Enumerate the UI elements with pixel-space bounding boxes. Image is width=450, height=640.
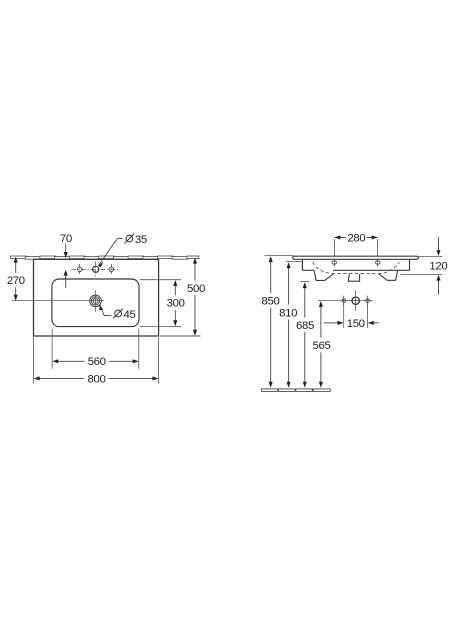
svg-text:280: 280 <box>347 232 365 244</box>
svg-text:70: 70 <box>60 233 72 245</box>
dimension 800 <box>39 377 153 379</box>
dimension 685 extension line <box>301 281 310 283</box>
dimension 300 <box>174 285 176 320</box>
svg-text:560: 560 <box>88 356 106 368</box>
dimension 270 <box>15 262 17 295</box>
basin rim slab (elevation) <box>293 256 419 259</box>
wall line (tiled wall band, plan view top) <box>11 256 199 259</box>
dimension 150 extension lines <box>344 304 368 328</box>
basin underside line <box>302 269 314 271</box>
dimension 565 <box>320 306 322 382</box>
hidden bowl outline (dashed arc) <box>313 262 400 274</box>
svg-text:35: 35 <box>135 234 147 246</box>
svg-text:150: 150 <box>347 318 365 330</box>
mounting hole center <box>352 297 359 304</box>
dimension 800 extension lines <box>34 338 159 384</box>
svg-text:685: 685 <box>296 320 314 332</box>
mounting hole left small <box>342 299 346 303</box>
basin body right edge <box>409 259 411 270</box>
right knockout hole <box>109 264 114 275</box>
basin outer rectangle (plan view) <box>34 259 159 336</box>
fixing hole left (oval) <box>332 261 337 264</box>
mounting holes centerline <box>318 300 373 302</box>
dimension 500 bottom extension line <box>160 335 201 337</box>
label Ø45 leader <box>101 308 111 316</box>
dimension 120 <box>401 237 443 295</box>
tap hole Ø35 (center) <box>93 261 99 278</box>
dimension 850 extension line <box>265 255 294 257</box>
fixing hole right (oval) <box>376 261 381 264</box>
svg-text:120: 120 <box>429 261 447 273</box>
svg-text:810: 810 <box>279 307 297 319</box>
svg-text:500: 500 <box>187 283 205 295</box>
left knockout hole <box>78 264 83 275</box>
dimension 280 <box>334 238 377 267</box>
dimension 150 <box>324 322 379 324</box>
left foot <box>314 270 334 280</box>
svg-text:850: 850 <box>262 296 280 308</box>
dimension 850 <box>270 262 272 383</box>
svg-text:800: 800 <box>88 373 106 385</box>
dimension 300 extension lines <box>140 280 181 327</box>
dimension 685 <box>304 288 306 383</box>
label Ø35 leader <box>99 238 123 265</box>
right foot <box>379 270 398 280</box>
drain horizontal centerline / 270 extension <box>12 300 104 302</box>
dimension 810 extension line <box>286 261 303 263</box>
dimension 560 extension lines <box>52 329 139 369</box>
dimension 70 <box>65 244 67 289</box>
dimension 500 <box>194 263 196 330</box>
basin body left edge <box>301 259 303 270</box>
center boss/tab <box>348 274 359 281</box>
bowl inner rounded rectangle <box>52 279 139 327</box>
drain vertical centerline <box>95 290 97 311</box>
floor line (tiled floor) <box>261 389 330 392</box>
dimension 810 <box>288 268 290 383</box>
svg-text:565: 565 <box>313 340 331 352</box>
drain hole Ø45 <box>90 295 102 307</box>
svg-text:45: 45 <box>124 309 136 321</box>
svg-text:270: 270 <box>7 275 25 287</box>
mounting hole right small <box>366 299 370 303</box>
tap holes centerline (dash-dot horizontal) <box>71 269 120 271</box>
svg-text:300: 300 <box>167 298 185 310</box>
dimension 560 <box>57 360 134 362</box>
